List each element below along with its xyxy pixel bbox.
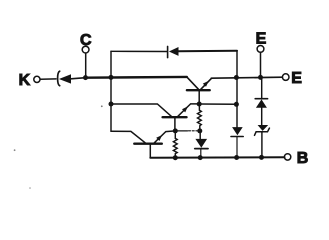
node zener bottom [259, 155, 264, 160]
diode D3 lead [199, 131, 201, 139]
wire D3 to B rail [200, 149, 202, 157]
wire E to diode D5 [261, 77, 263, 98]
node base line crossing [234, 102, 239, 107]
terminal B [284, 154, 290, 160]
diode D1 cathode bar [167, 46, 169, 57]
wire E top lead [260, 52, 262, 77]
transistor Q1 emitter diagonal [154, 131, 176, 143]
resistor R2 [173, 131, 177, 158]
wire main collector rail [86, 76, 187, 79]
node D3 bottom [198, 155, 203, 160]
transistor Q2 base bar [163, 116, 187, 118]
wire right branch vertical upper [236, 51, 238, 127]
diode D4 (K diode) cathode bracket [58, 71, 60, 86]
transistor Q3 base lead [198, 91, 200, 104]
node R1 bottom junction [197, 128, 202, 133]
svg-text:K: K [19, 72, 31, 89]
wire B rail [150, 156, 284, 159]
wire D2 to B rail [236, 137, 238, 157]
diode D3 cathode bar [195, 148, 208, 150]
speck [29, 187, 31, 189]
wire base resistor link solid part [175, 130, 187, 132]
speck [14, 149, 16, 151]
wire zener to B rail [261, 133, 263, 158]
wire diode to C junction [71, 78, 86, 79]
wire base resistor link dashed part [189, 130, 199, 132]
zener ZD triangle [258, 125, 269, 131]
transistor Q1 emitter arrow [156, 135, 162, 141]
transistor Q1 collector line [111, 131, 146, 143]
transistor Q1 base lead [149, 145, 151, 158]
terminal E right [282, 74, 289, 81]
wire K to diode [40, 78, 56, 80]
transistor Q2 emitter diagonal [178, 104, 200, 117]
node E rail crossing [234, 75, 239, 80]
zener ZD bar [255, 128, 270, 135]
transistor Q3 emitter diagonal [200, 78, 211, 90]
diode D5 cathode bar [255, 98, 267, 100]
transistor Q2 collector line [111, 104, 172, 117]
wire D5 to zener [261, 108, 263, 126]
transistor Q3 base bar [187, 89, 210, 91]
resistor R1 [198, 104, 202, 131]
diode D5 triangle [256, 99, 267, 107]
node R2 bottom [173, 155, 178, 160]
wire base node line [199, 103, 236, 105]
svg-text:E: E [291, 70, 302, 87]
speck [101, 105, 103, 107]
node Q2 base junction [173, 128, 178, 133]
node Q3 base junction [197, 102, 202, 107]
diode D4 triangle [59, 74, 71, 83]
wire C lead [85, 53, 87, 78]
transistor Q3 emitter arrow [203, 81, 209, 87]
diode D2 triangle [232, 127, 243, 135]
diode D2 cathode bar [231, 136, 243, 138]
node Q2 collector branch [109, 102, 114, 107]
transistor Q2 base lead [174, 118, 176, 131]
wire top left segment [111, 50, 167, 52]
transistor Q2 emitter arrow [182, 106, 188, 112]
node D2 bottom [234, 155, 239, 160]
transistor Q1 base bar [134, 142, 162, 144]
transistor Q3 collector diagonal [187, 77, 199, 90]
diode D3 triangle [195, 139, 207, 148]
node E top junction [258, 75, 263, 80]
node rail crossing [109, 75, 114, 80]
wire top right segment [178, 50, 237, 53]
wire left branch vertical [110, 51, 112, 131]
svg-text:B: B [297, 150, 309, 167]
diode D1 triangle [169, 47, 179, 56]
node C junction [83, 75, 88, 80]
wire E rail [211, 77, 282, 78]
